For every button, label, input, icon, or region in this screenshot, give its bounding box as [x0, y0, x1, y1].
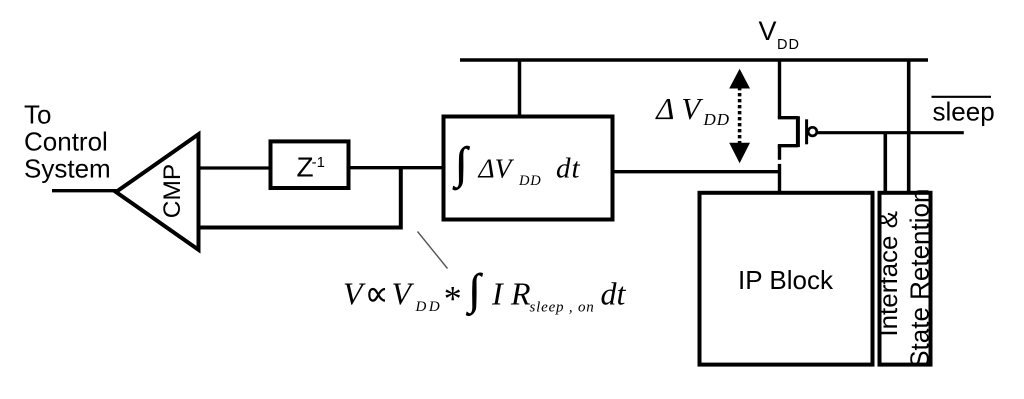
arrow: delta VDD measurement (dotted double arrow)	[729, 69, 750, 164]
transistor Q1: gate bubble	[808, 127, 817, 136]
transistor Q1: source jog	[778, 116, 798, 119]
block IP Block	[700, 193, 873, 365]
svg-text:dt: dt	[601, 276, 627, 312]
wire: rail to integrator top	[518, 60, 522, 116]
svg-text:R: R	[510, 276, 531, 312]
svg-text:IP Block: IP Block	[738, 265, 834, 295]
svg-text:*: *	[442, 279, 460, 319]
block Z^-1	[271, 141, 349, 188]
svg-text:DD: DD	[415, 299, 443, 315]
label integral dVdd dt	[452, 138, 581, 190]
propto symbol (drawn)	[369, 289, 385, 301]
svg-text:DD: DD	[777, 37, 800, 53]
svg-text:sleep , on: sleep , on	[530, 299, 595, 315]
svg-text:To: To	[24, 100, 51, 130]
block integrator U1	[444, 117, 613, 220]
svg-text:dt: dt	[556, 152, 581, 184]
wire: CMP top input from Z-1	[199, 166, 271, 169]
svg-text:sleep: sleep	[933, 97, 995, 127]
svg-text:V: V	[759, 16, 777, 46]
wire: integrator output to transistor drain node	[613, 170, 780, 173]
formula: V propto VDD * integral I R sleep,on dt	[343, 266, 627, 318]
leader line to formula	[418, 232, 448, 269]
svg-text:Δ: Δ	[478, 152, 495, 183]
overline of sleep	[932, 96, 992, 98]
transistor Q1: channel bar	[796, 116, 800, 147]
svg-text:State Retention: State Retention	[905, 189, 935, 368]
svg-text:I: I	[491, 276, 504, 312]
svg-text:V: V	[681, 91, 703, 126]
svg-text:DD: DD	[518, 173, 542, 189]
svg-text:CMP: CMP	[159, 164, 186, 218]
svg-text:Control: Control	[24, 127, 108, 157]
transistor Q1 PMOS: source wire	[778, 60, 781, 118]
svg-text:System: System	[24, 154, 111, 184]
wire: sleep drop to interface block	[883, 133, 887, 193]
svg-text:DD: DD	[703, 110, 731, 129]
wire: CMP bottom input (feedback line)	[199, 226, 403, 230]
wire: gate to sleep net	[817, 131, 964, 134]
wire: feedback vertical riser at node	[399, 168, 403, 230]
transistor Q1: drain wire lower to IP block	[778, 164, 781, 193]
wire: right rail drop (VDD to interface block)	[907, 60, 911, 193]
wire: CMP output to control system	[52, 189, 117, 192]
svg-text:Interface &: Interface &	[873, 211, 903, 337]
block Interface and State Retention	[880, 193, 931, 365]
op-amp comparator CMP	[116, 134, 199, 250]
svg-text:Δ: Δ	[654, 91, 674, 126]
transistor Q1: drain jog	[778, 144, 798, 147]
wire: Z-1 output to integrator input	[351, 166, 444, 169]
power rail VDD top	[460, 58, 928, 62]
transistor Q1: gate bar	[805, 119, 808, 144]
transistor Q1: drain wire upper	[778, 146, 781, 160]
